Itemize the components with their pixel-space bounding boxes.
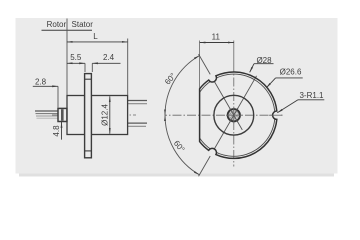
rotor boss circle xyxy=(214,95,254,135)
dimension 11 right extension line xyxy=(233,41,235,64)
flange left extension tick xyxy=(84,63,86,72)
lower 60 degree dimension arc xyxy=(165,115,199,175)
upper-left notch eraser xyxy=(208,74,216,82)
bushing insert stripe xyxy=(61,109,64,121)
rotor lead wire 1 xyxy=(35,110,58,112)
center 120 degree segment over hatch xyxy=(230,108,238,123)
svg-text:Ø26.6: Ø26.6 xyxy=(280,68,302,77)
center horizontal segment over hatch xyxy=(226,114,242,116)
centerline dash over right notch xyxy=(269,114,283,116)
dimension 3-R1.1 leader xyxy=(277,100,298,113)
svg-text:4.8: 4.8 xyxy=(52,125,61,137)
side view centerline xyxy=(52,114,136,116)
stator lead wire 1 xyxy=(128,100,147,102)
dimension 2.8 line xyxy=(33,85,58,87)
svg-text:2.8: 2.8 xyxy=(35,78,47,87)
vertical centerline xyxy=(233,63,235,167)
horizontal centerline xyxy=(165,114,282,116)
flange right extension tick xyxy=(91,63,93,72)
dimension Ø26.6 leader xyxy=(266,78,275,88)
svg-text:3-R1.1: 3-R1.1 xyxy=(299,91,324,100)
dimension 3-R1.1 underline xyxy=(298,99,324,101)
dimension 11 line xyxy=(200,42,234,44)
dimension L right extension line xyxy=(127,39,129,96)
dimension 4.8 line xyxy=(61,122,63,140)
dimension 11 left extension line xyxy=(199,41,201,89)
60-240 degree ray xyxy=(199,76,257,176)
dimension 5.5 line xyxy=(67,62,85,64)
svg-text:Ø12.4: Ø12.4 xyxy=(100,104,109,126)
panel bottom shadow xyxy=(19,174,334,177)
lower-left notch eraser xyxy=(208,149,216,157)
inner circle Ø26.6 xyxy=(200,74,275,156)
shaft circle with hatch xyxy=(228,109,240,121)
svg-text:Rotor: Rotor xyxy=(47,20,67,29)
right notch eraser xyxy=(273,111,281,119)
flange top hole line xyxy=(85,78,92,80)
mounting flange plate xyxy=(85,74,92,158)
dimension 2.8 extension line xyxy=(57,86,59,107)
rotor lead wire 4 xyxy=(37,117,59,119)
rotor lead wire 3 xyxy=(36,115,58,117)
stator lead wire 3 xyxy=(128,122,147,124)
svg-text:5.5: 5.5 xyxy=(70,53,82,62)
svg-text:L: L xyxy=(93,32,98,41)
svg-text:2.4: 2.4 xyxy=(103,53,115,62)
svg-text:11: 11 xyxy=(212,32,221,41)
outer body Ø28 outline with flat and 3 notches xyxy=(200,72,277,158)
rotor body xyxy=(67,96,85,135)
dimension L line xyxy=(67,41,128,43)
stator lead wire 4 xyxy=(128,125,146,127)
dimension Ø26.6 underline xyxy=(276,77,303,79)
dimension 2.4 line xyxy=(92,62,120,64)
stator lead wire 2 xyxy=(128,103,147,105)
wire exit bushing xyxy=(58,108,67,121)
center 60 degree segment over hatch xyxy=(230,108,238,123)
drawing panel background xyxy=(16,18,338,174)
120-300 degree ray xyxy=(199,54,243,130)
dimension Ø12.4 line xyxy=(109,96,111,133)
Rotor/Stator underline xyxy=(42,29,93,31)
dimension Ø28 underline xyxy=(254,63,274,65)
Rotor/Stator divider and left extension line xyxy=(66,19,68,96)
svg-text:Stator: Stator xyxy=(72,20,94,29)
upper 60 degree dimension arc xyxy=(165,56,199,116)
rotor lead wire 2 xyxy=(36,113,59,115)
stator body xyxy=(91,96,127,135)
flange bottom hole line xyxy=(85,150,92,152)
dimension Ø28 leader xyxy=(250,64,254,73)
center vertical segment over hatch xyxy=(233,107,235,124)
